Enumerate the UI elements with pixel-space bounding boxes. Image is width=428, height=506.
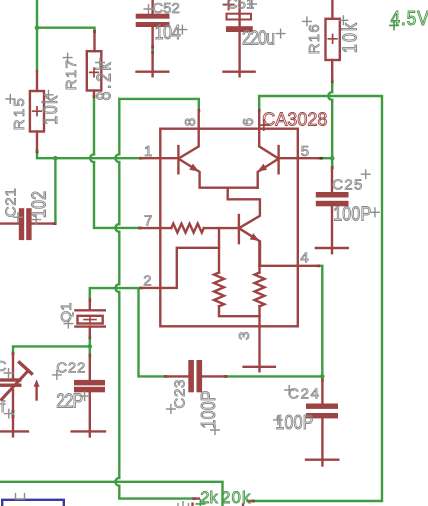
- wire crystal bottom / trimmer / C22 net: [13, 337, 90, 355]
- svg-text:4: 4: [300, 249, 308, 266]
- internal resistor right vertical: [255, 242, 265, 367]
- dark pin-wire overlap dots: [12, 30, 334, 503]
- IC origin cross: [259, 120, 269, 130]
- pin 2 wire: [141, 248, 219, 288]
- svg-text:C25: C25: [332, 177, 362, 194]
- wire R15 bottom to pin1 net: [37, 151, 140, 158]
- pin 7 wire with resistor: [140, 224, 238, 233]
- svg-text:100P: 100P: [333, 203, 371, 225]
- resistor R17: [87, 31, 102, 96]
- ground below C52: [137, 72, 169, 77]
- svg-text:8.2k: 8.2k: [93, 62, 115, 101]
- trimmer capacitor: [0, 353, 32, 436]
- svg-text:C51: C51: [227, 0, 255, 13]
- wire trimmer lead stub: [12, 411, 14, 416]
- blue frame corner: [2, 500, 64, 506]
- capacitor C52: [136, 0, 170, 72]
- RED SYMBOLS: [0, 0, 349, 466]
- svg-text:CA3028: CA3028: [262, 109, 327, 129]
- svg-text:R15: R15: [11, 98, 28, 130]
- svg-text:102: 102: [28, 191, 50, 218]
- ground below C24: [306, 460, 338, 466]
- capacitor C25: [316, 167, 349, 248]
- hop arcs on long left vertical: [115, 154, 119, 162]
- net label cross 2k: [195, 499, 205, 506]
- wire pin6 / right rail net: [253, 96, 382, 501]
- svg-text:2: 2: [143, 272, 151, 289]
- wire crystal top to pin2 net: [90, 288, 165, 376]
- svg-text:R16: R16: [306, 24, 323, 54]
- wire junction drop to C21: [54, 158, 56, 223]
- svg-text:6: 6: [240, 118, 257, 126]
- capacitor C23: [165, 360, 225, 392]
- net label cross 4.5V: [389, 20, 399, 30]
- svg-text:7: 7: [144, 213, 152, 230]
- svg-text:220u: 220u: [242, 27, 275, 49]
- svg-text:20k: 20k: [221, 489, 251, 506]
- svg-text:C23: C23: [171, 380, 188, 409]
- ground below C25: [316, 248, 348, 253]
- svg-text:C21: C21: [2, 188, 19, 217]
- capacitor C51 polarized: [224, 0, 253, 72]
- wire long bottom horizontal: [0, 482, 223, 506]
- wire C52 gnd stub: [151, 46, 153, 52]
- svg-text:22P: 22P: [56, 390, 83, 412]
- wire R16 bottom to pin5/C25 net with hop: [319, 81, 333, 168]
- svg-text:5: 5: [301, 143, 309, 160]
- hop arc on R17 wire at pin1 net: [90, 154, 94, 162]
- resistor R16: [326, 0, 340, 81]
- ground below C51: [224, 72, 255, 77]
- svg-text:10k: 10k: [40, 95, 62, 125]
- svg-text:C52: C52: [152, 0, 180, 17]
- svg-text:104: 104: [155, 21, 181, 43]
- crystal Q1: [75, 300, 104, 337]
- svg-text:C22: C22: [56, 359, 85, 376]
- svg-text:R17: R17: [63, 60, 80, 90]
- wire R17 bottom net with hop: [94, 96, 140, 228]
- resistor R15: [30, 71, 44, 151]
- svg-text:C24: C24: [288, 386, 319, 403]
- svg-text:100P: 100P: [197, 391, 219, 429]
- pin 3 ground: [244, 367, 275, 372]
- trimmer arrow: [34, 379, 40, 399]
- wire C23 right to pin4/C24 net: [225, 266, 322, 380]
- transistor Q-left (pins 1/8): [178, 110, 257, 187]
- wire long left vertical with hops: [119, 99, 193, 499]
- capacitor C22: [72, 355, 105, 436]
- wire pin8 net top: [119, 99, 199, 111]
- internal resistor left vertical: [214, 228, 260, 316]
- IC CA3028 box: [160, 129, 297, 327]
- svg-text:10k: 10k: [339, 22, 361, 53]
- svg-text:100P: 100P: [275, 412, 313, 434]
- bottom gray marks: [16, 493, 189, 506]
- svg-text:3: 3: [236, 332, 253, 340]
- capacitor C24: [306, 380, 338, 460]
- bottom small red pin marks: [193, 499, 253, 506]
- capacitor C21: [0, 208, 55, 240]
- pin 1 wire: [140, 157, 178, 159]
- hop arc on R16 wire: [328, 92, 332, 100]
- transistor Q-center (Q3): [228, 188, 260, 266]
- transistor Q-right (pins 5/6): [258, 110, 279, 187]
- wire net VCC top-left vertical: [37, 0, 95, 71]
- svg-text:8: 8: [182, 118, 199, 126]
- origin crosses gray: [4, 0, 380, 435]
- svg-text:Q1: Q1: [58, 302, 75, 322]
- svg-text:1: 1: [144, 143, 152, 160]
- pin 4 wire: [260, 265, 318, 267]
- pin 5 wire: [279, 157, 319, 159]
